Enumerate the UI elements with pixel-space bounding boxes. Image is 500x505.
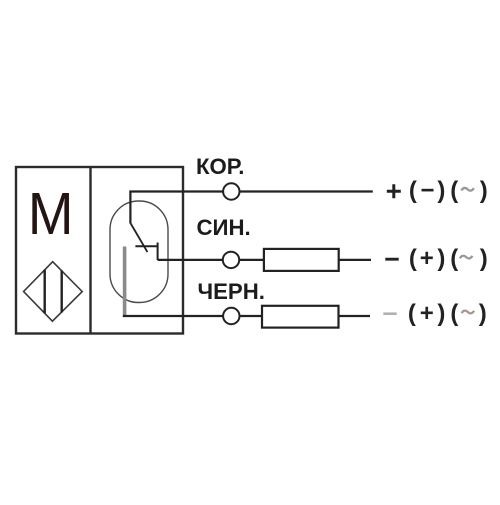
load resistor R2 on black wire	[262, 306, 339, 328]
svg-text:): )	[480, 245, 488, 272]
wire label KOP. (brown)	[196, 154, 244, 179]
svg-text:): )	[480, 177, 488, 204]
sensing element diamond symbol	[24, 262, 83, 322]
svg-text:): )	[437, 177, 445, 204]
svg-text:+: +	[420, 300, 434, 327]
svg-text:ЧЕРН.: ЧЕРН.	[198, 279, 265, 304]
terminal circle 2	[223, 252, 239, 268]
svg-text:СИН.: СИН.	[197, 215, 251, 240]
sensor body divider	[89, 167, 91, 334]
svg-text:): )	[437, 300, 445, 327]
svg-text:КОР.: КОР.	[196, 154, 244, 179]
svg-text:M: M	[28, 181, 74, 248]
wire blue (CIN)	[158, 259, 371, 261]
switch contact bar	[135, 243, 157, 261]
svg-text:(: (	[450, 245, 458, 272]
svg-text:+: +	[420, 245, 434, 272]
svg-text:): )	[437, 245, 445, 272]
terminal circle 3	[223, 308, 239, 324]
reed switch capsule	[110, 201, 168, 303]
switch lead from top wire	[129, 192, 131, 224]
polarity label row 1: + (-)(~)	[387, 177, 488, 204]
terminal circle 1	[223, 183, 239, 199]
polarity label row 2: - (+)(~)	[385, 245, 488, 272]
sensor body outer box	[16, 167, 183, 334]
switch gray lead to bottom wire	[123, 247, 127, 316]
magnet label M	[28, 181, 74, 248]
svg-text:−: −	[420, 177, 434, 204]
svg-text:(: (	[409, 245, 417, 272]
svg-text:(: (	[450, 177, 458, 204]
load resistor R1 on blue wire	[264, 249, 339, 271]
wire label CIN. (blue)	[197, 215, 251, 240]
switch blade	[130, 223, 147, 252]
svg-text:): )	[479, 300, 487, 327]
svg-text:(: (	[450, 300, 458, 327]
svg-text:(: (	[408, 300, 416, 327]
wire brown (KOP)	[129, 190, 372, 192]
polarity label row 3: faint - (+)(~)	[383, 300, 487, 327]
wire black (CHERN)	[123, 315, 370, 317]
svg-text:(: (	[409, 177, 417, 204]
wire label CHERN. (black)	[198, 279, 265, 304]
